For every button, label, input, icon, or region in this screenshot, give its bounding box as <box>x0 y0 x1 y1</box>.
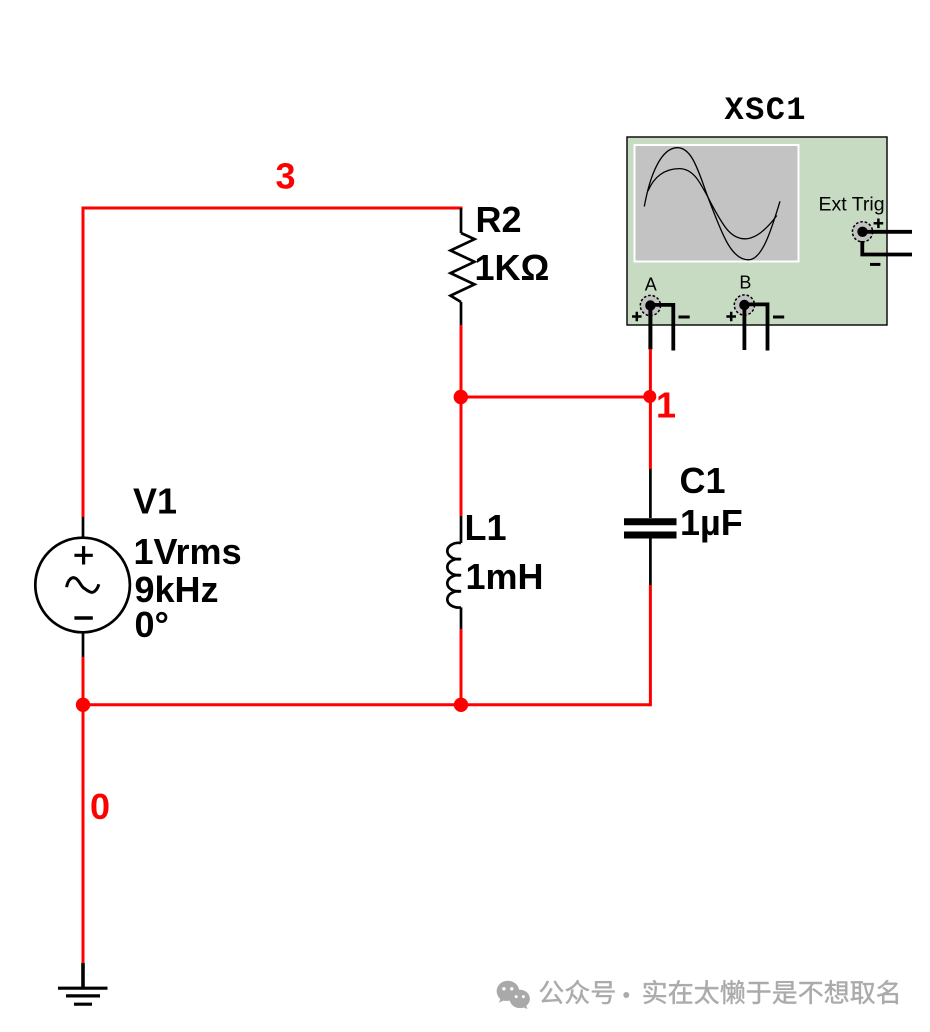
svg-text:3: 3 <box>276 156 296 197</box>
wire bottom horizontal <box>83 703 650 706</box>
svg-text:0: 0 <box>90 786 110 827</box>
wire net 0 vertical to ground <box>82 705 85 963</box>
junction dot at R2/L1 node <box>454 390 468 404</box>
svg-text:1: 1 <box>656 385 676 426</box>
ext trig plus <box>874 219 884 229</box>
terminal A plus <box>632 312 642 322</box>
capacitor C1 <box>624 468 677 586</box>
wire scope A minus stub <box>650 305 673 351</box>
watermark wechat logo <box>497 981 530 1009</box>
waveform channel A <box>644 148 780 260</box>
wire scope B plus stub <box>743 305 747 350</box>
voltage source V1 <box>35 517 130 658</box>
svg-text:XSC1: XSC1 <box>725 92 807 129</box>
waveform channel B <box>648 169 777 239</box>
ext trig minus <box>870 263 880 266</box>
ext trig wire plus <box>866 230 912 234</box>
wire scope B minus stub <box>744 304 767 350</box>
svg-text:Ext Trig: Ext Trig <box>819 194 885 216</box>
terminal A <box>640 295 660 315</box>
svg-text:V1: V1 <box>133 481 177 522</box>
watermark text <box>540 980 898 1004</box>
wire scope A terminal stub <box>648 306 652 350</box>
terminal B plus <box>726 312 736 322</box>
svg-text:1µF: 1µF <box>680 502 743 543</box>
svg-text:1mH: 1mH <box>466 556 544 597</box>
watermark dot separator <box>623 992 629 998</box>
wire L1 bottom red <box>460 629 463 705</box>
resistor R2 <box>451 208 475 327</box>
wire C1 bottom red <box>649 585 652 706</box>
wire L1 top red <box>460 396 463 516</box>
wire middle horizontal junction to node 1 <box>461 396 650 399</box>
wire net3 left vertical <box>82 207 85 518</box>
instrument body <box>627 137 887 325</box>
instrument screen <box>635 145 799 262</box>
inductor L1 <box>447 515 461 630</box>
ground symbol <box>58 963 108 1004</box>
svg-text:C1: C1 <box>680 460 726 501</box>
terminal B minus <box>773 316 784 319</box>
wire scope A to node 1 <box>649 349 652 397</box>
junction dot at V1 bottom <box>76 698 90 712</box>
svg-text:1Vrms: 1Vrms <box>134 531 242 572</box>
svg-text:B: B <box>739 272 751 292</box>
svg-text:A: A <box>645 274 657 294</box>
terminal A minus <box>679 316 690 319</box>
wire net3 top horizontal <box>82 207 463 210</box>
ext trig wire minus <box>862 241 912 255</box>
wire C1 top red <box>649 396 652 469</box>
svg-text:0°: 0° <box>135 604 169 645</box>
oscilloscope XSC1 <box>627 137 912 325</box>
junction dot at L1 bottom <box>454 698 468 712</box>
junction dot node 1 <box>643 390 656 403</box>
wire V1 to bottom junction <box>82 657 85 707</box>
svg-text:1KΩ: 1KΩ <box>475 247 550 288</box>
ext trig terminal <box>852 222 872 242</box>
wire R2 to junction <box>460 325 463 398</box>
terminal B <box>734 295 754 315</box>
svg-text:L1: L1 <box>465 507 507 548</box>
svg-text:R2: R2 <box>476 199 522 240</box>
